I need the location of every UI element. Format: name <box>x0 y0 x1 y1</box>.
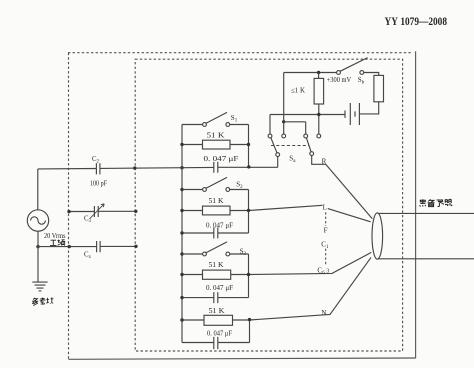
wire block3 resistor row left <box>182 274 203 276</box>
junction dot block3 resistor row left rail <box>180 273 183 276</box>
svg-text:YY 1079—2008: YY 1079—2008 <box>385 14 448 28</box>
capacitor block2 0.047uF plates <box>214 228 218 239</box>
wire branch from T2 junction to T3 drop <box>284 121 306 123</box>
junction dot block2 switch row left rail <box>180 188 183 191</box>
AC source 20Vrms generator circle with sine <box>27 210 48 231</box>
svg-text:51 K: 51 K <box>207 132 226 140</box>
wire block4 cap row left <box>182 342 214 344</box>
junction dot block2 resistor row left rail <box>180 209 183 212</box>
battery B1 cells <box>345 103 359 125</box>
wire top row from C2 to network block 1 <box>100 167 214 168</box>
wire Sa pole P1 down to block1 output <box>277 157 279 168</box>
resistor block2 51K body <box>203 206 231 215</box>
resistor block1 51K body <box>203 140 231 149</box>
wire lead L slant to cable bundle <box>328 209 371 222</box>
wire block4 cap row right <box>218 342 250 344</box>
switch Sb pivot contact <box>337 71 341 75</box>
wire lead R slant to cable bundle <box>326 164 373 219</box>
svg-text:L: L <box>323 203 327 211</box>
patient leads label huanzhedaolian hanzi <box>420 199 453 206</box>
wire block2 resistor row right with lead L output <box>230 205 323 210</box>
wire Cx row from source lead to cap <box>38 246 97 248</box>
wire block2 right rail <box>248 190 250 234</box>
wire block3 right rail <box>248 254 250 298</box>
svg-text:51 K: 51 K <box>209 261 225 269</box>
junction dot C3 row on outer shield <box>67 210 70 213</box>
capacitor block1 0.047uF plates <box>214 162 218 173</box>
node Sa pole P2 <box>310 152 314 156</box>
resistor block4 51K body <box>204 315 233 325</box>
svg-text:C2: C2 <box>92 156 100 165</box>
wire block1 switch row right <box>230 124 249 126</box>
wire block3 resistor row right with chest lead output <box>231 252 372 274</box>
AC source label gongpin (mains frequency) hanzi <box>50 240 65 246</box>
svg-text:Sa: Sa <box>289 155 296 165</box>
ground reference earth symbol <box>32 282 47 291</box>
svg-text:N: N <box>321 309 326 317</box>
junction dot block2 cap row left rail <box>180 231 183 234</box>
wire block3 cap row right <box>218 297 249 299</box>
wire AC source top lead up <box>37 169 39 210</box>
wire corner down to Sa terminal T1 <box>269 115 271 134</box>
wire T3 lead down <box>305 122 307 134</box>
dashed ellipsis between L and F <box>325 212 327 226</box>
wire block1 resistor row right <box>230 144 249 146</box>
junction dot block3 switch row left rail <box>180 252 183 255</box>
resistor 1K body <box>314 78 324 104</box>
node Sa terminal T1 <box>268 134 272 138</box>
junction dot T2 branch <box>282 120 285 123</box>
wire T4 lead from resistor bottom through row A <box>318 104 320 134</box>
svg-text:51 K: 51 K <box>209 307 226 315</box>
node Sa terminal T4 <box>317 134 321 138</box>
junction dot upper bus at 1K resistor top <box>317 71 320 74</box>
node Sa terminal T3 <box>304 134 308 138</box>
svg-text:51 K: 51 K <box>209 197 225 205</box>
resistor block3 51K body <box>203 270 231 279</box>
wire block1 resistor row left <box>182 144 203 146</box>
switch Sa left arm <box>271 138 277 153</box>
inner shield box dashed rectangle <box>135 59 402 351</box>
junction dot top row on inner shield <box>133 166 136 169</box>
outer shield box dashed left edge <box>68 53 70 360</box>
junction dot block2 resistor row right rail <box>247 209 250 212</box>
wire Sb contact to right resistor top <box>364 73 379 76</box>
svg-text:Sb: Sb <box>358 76 365 86</box>
wire patient cable top line <box>378 212 474 214</box>
svg-text:+300 mV: +300 mV <box>327 76 352 84</box>
svg-text:S2: S2 <box>236 181 243 191</box>
svg-text:C63: C63 <box>317 266 329 276</box>
wire upper bus to 1K and Sb pivot <box>284 72 337 74</box>
wire block3 switch row right <box>230 253 249 255</box>
junction dot block1 resistor row right rail <box>247 143 250 146</box>
svg-text:C3: C3 <box>84 215 92 224</box>
svg-text:F: F <box>324 226 328 234</box>
capacitor Cx plates <box>97 241 101 252</box>
switch S1 contacts and arm <box>203 112 230 126</box>
wire AC source bottom lead down <box>37 231 39 282</box>
wire Cx row from cap to inner shield <box>100 245 136 247</box>
outer shield box solid right edge <box>415 51 417 358</box>
switch Sa gang coupling dashed link <box>271 145 309 147</box>
capacitor block3 0.047uF plates <box>214 292 218 303</box>
wire top row from source to C2 <box>38 168 97 170</box>
wire block2 resistor row left <box>182 210 203 212</box>
outer shield box dashed top edge <box>68 52 413 54</box>
wire Sa pole P2 down and right to lead R <box>312 156 326 165</box>
svg-text:C1: C1 <box>321 240 329 250</box>
svg-text:S3: S3 <box>240 247 247 257</box>
wire block2 cap row right <box>218 232 249 234</box>
junction dot block4 resistor row left rail <box>180 318 183 321</box>
variable capacitor C3 arrow <box>90 204 104 219</box>
capacitor C2 plates <box>96 163 100 174</box>
junction dot top row at left rail <box>180 166 183 169</box>
svg-text:20 Vrms: 20 Vrms <box>44 232 66 240</box>
junction dot block3 resistor row right rail <box>247 273 250 276</box>
node Sa terminal T2 <box>282 134 286 138</box>
junction dot Cx row at source lead <box>36 245 39 248</box>
junction dot block1 cap row right rail <box>247 165 250 168</box>
dashed ellipsis between C1 and C6 <box>325 249 327 265</box>
wire T2 lead down <box>283 122 285 134</box>
svg-text:0. 047 μF: 0. 047 μF <box>204 155 239 163</box>
switch S3 contacts and arm <box>203 242 230 256</box>
wire block2 cap row left <box>182 232 214 234</box>
wire patient cable bottom line <box>378 258 474 260</box>
wire block1 cap row right extending to switch Sa pole <box>218 166 278 168</box>
switch S2 contacts and arm <box>203 177 230 191</box>
junction dot Cx row on inner shield <box>134 245 137 248</box>
wire block2 switch row left <box>182 189 202 191</box>
svg-text:0. 047 μF: 0. 047 μF <box>206 221 233 229</box>
junction dot Cx row on outer shield <box>68 245 71 248</box>
junction dot row A at T4 lead <box>317 113 320 116</box>
variable capacitor C3 plates <box>94 206 98 217</box>
svg-text:S1: S1 <box>231 114 238 124</box>
outer shield box solid bottom edge <box>69 358 416 359</box>
svg-text:Cx: Cx <box>84 252 92 261</box>
wire block1 right rail <box>248 125 250 168</box>
wire block3 switch row left <box>182 253 202 255</box>
wire block4 resistor row left <box>182 319 204 321</box>
capacitor block4 0.047uF plates <box>214 337 218 349</box>
svg-text:0. 047 μF: 0. 047 μF <box>206 284 233 292</box>
switch Sa right arm <box>306 138 311 152</box>
wire common left rail of RC networks <box>181 125 183 343</box>
wire block1 switch row left <box>182 124 202 126</box>
wire battery row A horizontal <box>270 114 345 116</box>
wire block2 switch row right <box>230 189 249 191</box>
svg-text:0. 047 μF: 0. 047 μF <box>207 329 232 337</box>
node Sa pole P1 <box>276 153 280 157</box>
junction dot block1 resistor row left rail <box>180 143 183 146</box>
switch Sb fixed contact <box>360 71 364 75</box>
resistor right body <box>374 75 384 101</box>
cable bundle ellipse <box>372 213 383 259</box>
wire 1K resistor top lead <box>318 73 320 79</box>
wire block3 cap row left <box>182 297 214 299</box>
junction dot C3 row on inner shield <box>134 210 137 213</box>
junction dot block4 resistor row right rail <box>248 318 251 321</box>
wire vertical from upper bus down crossing row A to T2 branch <box>283 73 285 122</box>
ground label cankaodi (reference earth) hanzi <box>32 297 53 305</box>
wire block4 resistor row right with lead N output <box>233 257 372 320</box>
switch Sb arm open <box>340 58 367 72</box>
junction dot block3 cap row left rail <box>180 296 183 299</box>
wire block4 right rail <box>249 320 251 343</box>
svg-text:100 pF: 100 pF <box>90 180 107 188</box>
wire C3 row from outer shield to cap <box>69 211 94 213</box>
svg-text:≤1 K: ≤1 K <box>291 87 305 95</box>
wire right resistor bottom to battery positive <box>359 102 378 114</box>
wire C3 row from cap to inner shield <box>98 210 136 212</box>
